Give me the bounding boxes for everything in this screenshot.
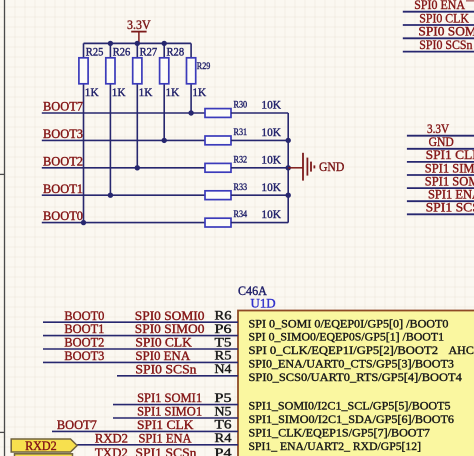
junction bus/R31 xyxy=(286,138,291,143)
svg-text:SPI1 ENA: SPI1 ENA xyxy=(428,188,474,202)
svg-text:SPI1 ENA: SPI1 ENA xyxy=(139,431,193,445)
svg-text:R27: R27 xyxy=(140,45,158,59)
svg-text:SPI0 SOMI0: SPI0 SOMI0 xyxy=(418,25,474,39)
wire net SPI1 CLK to pin T6 xyxy=(52,430,238,432)
svg-text:SPI 0_SOMI 0/EQEP0I/GP5[0] /BO: SPI 0_SOMI 0/EQEP0I/GP5[0] /BOOT0 xyxy=(249,316,449,330)
junction rail/R27/3.3V stem xyxy=(135,41,140,46)
svg-text:SPI0 SOMI0: SPI0 SOMI0 xyxy=(135,309,205,323)
svg-text:R28: R28 xyxy=(167,45,185,59)
resistor R31 10K xyxy=(205,125,288,145)
svg-text:R31: R31 xyxy=(234,128,248,138)
svg-text:R29: R29 xyxy=(197,62,211,72)
svg-text:SPI1 SOMI1: SPI1 SOMI1 xyxy=(137,391,202,405)
resistor R34 10K xyxy=(205,207,288,227)
wire net GND (right) xyxy=(407,148,474,150)
port TXD2 (cut) xyxy=(15,454,73,456)
svg-text:SPI0_SCS0/UART0_RTS/GP5[4]/BOO: SPI0_SCS0/UART0_RTS/GP5[4]/BOOT4 xyxy=(249,370,462,384)
wire net SPI0 SCSn to pin N4 xyxy=(117,375,238,377)
junction R28/BOOT3 xyxy=(162,138,167,143)
svg-text:SPI1 CLK: SPI1 CLK xyxy=(137,418,194,432)
svg-text:1K: 1K xyxy=(166,85,180,99)
resistor R29 1K xyxy=(187,43,211,113)
wire net SPI1 SIMO1 (right) xyxy=(407,174,474,176)
svg-text:SPI1 CLK: SPI1 CLK xyxy=(426,148,474,162)
svg-text:BOOT3: BOOT3 xyxy=(64,349,104,363)
svg-text:SPI0 CLK: SPI0 CLK xyxy=(419,11,469,25)
wire net BOOT7 xyxy=(42,112,206,114)
svg-text:1K: 1K xyxy=(85,85,99,99)
junction R29/BOOT7 xyxy=(188,110,193,115)
power port 3.3V xyxy=(127,18,151,43)
wire bus R30-R34 to GND xyxy=(287,113,289,223)
wire net BOOT0 xyxy=(42,222,206,224)
wire net SPI0 ENA to pin R5 xyxy=(43,361,238,363)
svg-text:SPI1 SOMI1: SPI1 SOMI1 xyxy=(425,174,474,188)
svg-text:BOOT0: BOOT0 xyxy=(64,309,104,323)
wire net SPI0 SOMI0 xyxy=(403,37,474,39)
svg-text:BOOT0: BOOT0 xyxy=(43,209,83,223)
svg-text:1K: 1K xyxy=(112,85,126,99)
svg-text:BOOT7: BOOT7 xyxy=(43,100,84,114)
svg-text:P4: P4 xyxy=(215,445,233,456)
svg-text:10K: 10K xyxy=(261,180,281,194)
resistor R32 10K xyxy=(205,152,288,172)
svg-text:SPI0 SCSn: SPI0 SCSn xyxy=(135,362,197,376)
svg-text:SPI0 ENA: SPI0 ENA xyxy=(414,0,465,12)
junction bus/R32/GND xyxy=(286,165,291,170)
resistor R33 10K xyxy=(205,180,288,200)
wire 3.3V rail xyxy=(84,42,192,44)
wire net SPI0 CLK to pin T5 xyxy=(43,348,238,350)
wire net SPI0 ENA xyxy=(403,11,474,13)
svg-text:SPI0 SCSn: SPI0 SCSn xyxy=(419,38,473,52)
svg-text:10K: 10K xyxy=(261,152,281,166)
svg-text:SPI1 SCSn: SPI1 SCSn xyxy=(135,446,197,456)
svg-text:AHCL: AHCL xyxy=(449,343,474,357)
svg-text:SPI 0_SIMO0/EQEP0S/GP5[1] /BOO: SPI 0_SIMO0/EQEP0S/GP5[1] /BOOT1 xyxy=(249,330,445,344)
svg-text:SPI0 CLK: SPI0 CLK xyxy=(135,336,192,350)
svg-text:BOOT1: BOOT1 xyxy=(43,182,83,196)
svg-text:GND: GND xyxy=(429,135,454,149)
resistor R27 1K xyxy=(133,43,158,167)
junction rail/R28 xyxy=(162,41,167,46)
svg-text:R33: R33 xyxy=(234,183,248,193)
svg-text:3.3V: 3.3V xyxy=(427,122,450,136)
wire net BOOT2 xyxy=(42,167,206,169)
junction rail/R26 xyxy=(108,41,113,46)
svg-text:BOOT2: BOOT2 xyxy=(43,154,83,168)
svg-text:SPI1_CLK/EQEP1S/GP5[7]/BOOT7: SPI1_CLK/EQEP1S/GP5[7]/BOOT7 xyxy=(249,426,431,440)
svg-text:SPI1_SIMO0/I2C1_SDA/GP5[6]/BOO: SPI1_SIMO0/I2C1_SDA/GP5[6]/BOOT6 xyxy=(249,412,455,426)
svg-text:SPI1 SIMO1: SPI1 SIMO1 xyxy=(425,161,474,175)
svg-text:U1D: U1D xyxy=(251,297,276,311)
wire net SPI1 ENA (right) xyxy=(407,200,474,202)
wire net SPI1 SOMI1 to pin P5 xyxy=(113,404,238,406)
svg-text:GND: GND xyxy=(319,160,344,174)
wire net SPI1 SIMO1 to pin N5 xyxy=(113,417,238,419)
wire net SPI1 SOMI1 (right) xyxy=(407,187,474,189)
wire net SPI0 SOMI0 to pin R6 xyxy=(43,321,238,323)
svg-text:BOOT2: BOOT2 xyxy=(64,336,104,350)
wire net SPI0 CLK xyxy=(403,24,474,26)
resistor R25 1K xyxy=(79,43,104,222)
svg-text:SPI1 SIMO1: SPI1 SIMO1 xyxy=(137,405,202,419)
wire net SPI1 SCSn (right) xyxy=(407,213,474,215)
svg-text:BOOT1: BOOT1 xyxy=(64,322,104,336)
resistor R26 1K xyxy=(106,43,131,195)
svg-text:SPI1_SOMI0/I2C1_SCL/GP5[5]/BOO: SPI1_SOMI0/I2C1_SCL/GP5[5]/BOOT5 xyxy=(249,399,451,413)
svg-text:TXD2: TXD2 xyxy=(95,446,128,456)
wire net SPI0 SIMO0 to pin P6 xyxy=(43,335,238,337)
port RXD2 xyxy=(11,439,77,453)
svg-text:SPI0 ENA: SPI0 ENA xyxy=(135,349,191,363)
svg-text:1K: 1K xyxy=(192,85,206,99)
svg-text:10K: 10K xyxy=(261,125,281,139)
svg-text:SPI0 SIMO0: SPI0 SIMO0 xyxy=(135,322,205,336)
ground GND xyxy=(288,153,344,181)
svg-text:N4: N4 xyxy=(215,361,233,376)
svg-text:R30: R30 xyxy=(234,101,248,111)
svg-text:R34: R34 xyxy=(234,210,248,220)
junction R26/BOOT1 xyxy=(108,193,113,198)
sheet border left edge xyxy=(0,0,5,456)
wire net BOOT1 xyxy=(42,194,206,196)
junction bus/R33 xyxy=(286,193,291,198)
resistor R30 10K xyxy=(205,98,288,118)
svg-text:SPI 0_CLK/EQEP1I/GP5[2]/BOOT2: SPI 0_CLK/EQEP1I/GP5[2]/BOOT2 xyxy=(249,343,439,357)
wire net SPI0 SCSn xyxy=(403,51,474,53)
svg-text:BOOT3: BOOT3 xyxy=(43,127,83,141)
svg-text:BOOT7: BOOT7 xyxy=(57,418,98,432)
svg-text:3.3V: 3.3V xyxy=(127,18,151,32)
IC U1D part body xyxy=(238,311,474,456)
wire net SPI1 CLK (right) xyxy=(407,161,474,163)
junction R25/BOOT0 xyxy=(81,220,86,225)
svg-text:R4: R4 xyxy=(215,430,233,445)
svg-text:R32: R32 xyxy=(234,155,248,165)
svg-text:R26: R26 xyxy=(113,45,131,59)
svg-text:RXD2: RXD2 xyxy=(95,431,128,445)
net label fragment top right corner xyxy=(466,0,474,2)
svg-text:1K: 1K xyxy=(139,85,153,99)
wire net BOOT3 xyxy=(42,139,206,141)
svg-text:10K: 10K xyxy=(261,98,281,112)
svg-text:10K: 10K xyxy=(261,207,281,221)
junction R27/BOOT2 xyxy=(135,165,140,170)
svg-text:SPI1 SCSn: SPI1 SCSn xyxy=(426,201,474,215)
wire net SPI1 ENA to pin R4 xyxy=(77,444,238,446)
svg-text:RXD2: RXD2 xyxy=(25,439,57,453)
svg-text:SPI0_ENA/UART0_CTS/GP5[3]/BOOT: SPI0_ENA/UART0_CTS/GP5[3]/BOOT3 xyxy=(249,357,454,371)
resistor R28 1K xyxy=(160,43,185,140)
wire net 3.3V (right) xyxy=(407,135,474,137)
svg-text:SPI1_ ENA/UART2_ RXD/GP5[12]: SPI1_ ENA/UART2_ RXD/GP5[12] xyxy=(249,439,422,453)
svg-text:R25: R25 xyxy=(86,45,104,59)
